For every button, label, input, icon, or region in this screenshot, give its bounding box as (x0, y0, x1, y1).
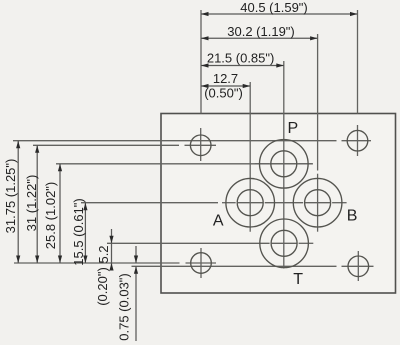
svg-text:25.8 (1.02"): 25.8 (1.02") (43, 182, 58, 250)
arrow 21.5 left (201, 63, 209, 67)
port A inner circle (237, 190, 263, 216)
crosshair vertical bottom-left bolt (200, 248, 202, 278)
extension line: bottom-right bolt level y=266.3 with centerline gap (132, 265, 337, 267)
dimension line 12.7 (201, 85, 250, 87)
extension line: port P level y=163.8 (56, 163, 313, 165)
svg-text:A: A (213, 212, 224, 229)
arrow 15.5 bottom (83, 256, 87, 264)
dimension line 0.75 vertical upper (135, 246, 137, 263)
svg-text:21.5 (0.85"): 21.5 (0.85") (207, 50, 275, 65)
crosshair horizontal port P (3 dashes) (255, 163, 269, 165)
arrow 40.5 left (201, 12, 209, 16)
bolt hole bottom-right (348, 256, 369, 277)
extension line + crosshair: port B column x=317.6 (317, 34, 319, 171)
dimension line 40.5 (201, 13, 358, 15)
dimension line 31 vertical (36, 145, 38, 263)
svg-text:(0.20"): (0.20") (95, 267, 110, 306)
port B inner circle (305, 190, 331, 216)
extension line: 31 level (top-left bolt) y=145.3 with centerline gap (33, 144, 179, 146)
extension line: ports A/B level y=202.7 (left part) (81, 202, 218, 204)
arrow 30.2 right (310, 36, 318, 40)
crosshair vertical bottom-right bolt (357, 251, 359, 281)
svg-text:P: P (287, 120, 298, 137)
dimension line 31.75 vertical (17, 141, 19, 263)
arrow 0.75 top (outside, pointing down) (134, 256, 138, 264)
arrow 31.75 bottom (16, 256, 20, 264)
svg-text:30.2 (1.19"): 30.2 (1.19") (227, 24, 295, 39)
extension line: ports A/B level y=202.7 (dashes through A and B) (222, 202, 236, 204)
dimension line 0.75 vertical lower (135, 266, 137, 341)
arrow 12.7 left (201, 84, 209, 88)
svg-text:12.7: 12.7 (213, 71, 238, 86)
arrow 25.8 top (58, 164, 62, 172)
bolt hole bottom-left (191, 253, 212, 274)
extension line: right bolt column x=357.5 (357, 10, 359, 114)
svg-text:5.2: 5.2 (96, 245, 111, 263)
extension line: datum column x=201 (200, 10, 202, 114)
dimension line 5.2 vertical (111, 229, 113, 270)
arrow 25.8 bottom (58, 256, 62, 264)
dimension line 25.8 vertical (59, 164, 61, 263)
arrow 5.2 top (outside, pointing down) (109, 236, 113, 244)
port P outer circle (260, 140, 309, 189)
svg-text:(0.50"): (0.50") (204, 86, 243, 101)
svg-text:31.75 (1.25"): 31.75 (1.25") (3, 159, 18, 234)
extension line: 31.75 level (top-right bolt) y=140.7 with centerline gap (13, 140, 337, 142)
svg-text:31 (1.22"): 31 (1.22") (24, 175, 39, 232)
crosshair vertical top-left bolt (200, 128, 202, 161)
arrow 5.2 bottom (outside, pointing up) (109, 263, 113, 271)
extension line + crosshair: port A column x=250.2 (249, 82, 251, 232)
port T inner circle (271, 230, 297, 256)
extension line + crosshair: ports P/T column x=283.8 (283, 61, 285, 269)
svg-text:15.5 (0.61"): 15.5 (0.61") (71, 198, 86, 266)
dimension line 21.5 (201, 65, 284, 67)
arrow 30.2 left (201, 36, 209, 40)
dimension line 15.5 vertical (84, 203, 86, 263)
port B outer circle (293, 178, 342, 227)
arrow 21.5 right (276, 63, 284, 67)
port T outer circle (260, 219, 309, 268)
crosshair vertical top-right bolt (357, 125, 359, 156)
svg-text:0.75 (0.03"): 0.75 (0.03") (117, 273, 132, 341)
extension line: port T level y=243.3 (dashes through T) (107, 242, 270, 244)
extension line: datum (bottom-left bolt) y=263 with centerline gap (14, 262, 180, 264)
valve mounting plate outline (161, 114, 396, 294)
dimension line 30.2 (201, 37, 318, 39)
arrow 0.75 bottom (outside, pointing up) (134, 266, 138, 274)
port A outer circle (226, 178, 275, 227)
arrow 40.5 right (350, 12, 358, 16)
bolt hole top-right (347, 130, 368, 151)
svg-text:40.5 (1.59"): 40.5 (1.59") (240, 0, 308, 15)
bolt hole top-left (190, 135, 211, 156)
arrow 31.75 top (16, 141, 20, 149)
arrow 31 top (35, 145, 39, 153)
crosshair vertical port B (317, 174, 319, 232)
svg-text:B: B (347, 208, 358, 225)
port P inner circle (271, 151, 297, 177)
arrow 31 bottom (35, 256, 39, 264)
arrow 12.7 right (243, 84, 251, 88)
svg-text:T: T (293, 271, 303, 288)
arrow 15.5 top (83, 203, 87, 211)
